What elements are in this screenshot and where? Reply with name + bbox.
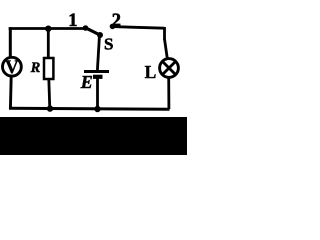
wire contact2 to top-right corner <box>113 27 164 29</box>
node switch contact 2 <box>110 24 116 30</box>
svg-text:S: S <box>104 35 113 54</box>
switch arm S <box>86 28 101 35</box>
battery E long plate <box>84 70 109 73</box>
svg-text:E: E <box>80 72 93 92</box>
node switch pivot <box>97 32 103 38</box>
wire battery top vertical <box>97 35 99 70</box>
voltmeter V <box>3 57 22 78</box>
wire right vertical to lamp <box>165 39 168 59</box>
wire top-left horizontal <box>9 27 85 30</box>
lamp L <box>160 59 179 78</box>
wire left vertical lower <box>9 76 13 109</box>
wire resistor bottom stub <box>49 79 50 110</box>
wire left vertical upper <box>9 27 12 57</box>
svg-text:L: L <box>145 62 157 82</box>
node junction resistor-bottom <box>47 105 53 111</box>
node switch contact 1 <box>83 25 89 31</box>
wire resistor top stub <box>47 28 50 60</box>
svg-text:V: V <box>5 57 19 78</box>
battery E short plate <box>93 75 103 79</box>
wire bottom horizontal <box>9 107 170 111</box>
wire lamp bottom stub <box>167 78 170 110</box>
node junction resistor-top <box>45 26 51 32</box>
svg-text:1: 1 <box>68 11 77 31</box>
wire battery bottom vertical <box>96 79 99 110</box>
wire right vertical upper <box>163 27 166 40</box>
black band bottom <box>0 117 187 155</box>
node junction battery-bottom <box>94 106 100 112</box>
resistor R box <box>44 58 53 79</box>
svg-text:R: R <box>30 60 41 76</box>
